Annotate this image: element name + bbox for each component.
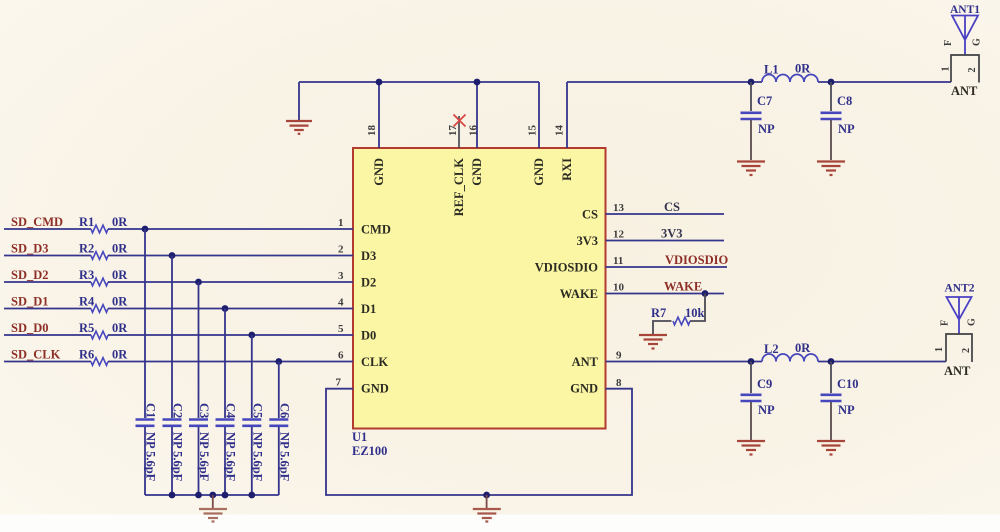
svg-text:7: 7 [336, 377, 342, 389]
svg-text:0R: 0R [112, 321, 128, 335]
wire SD_D2 to R3 [4, 281, 91, 283]
svg-text:D2: D2 [361, 276, 376, 290]
svg-text:ANT2: ANT2 [944, 283, 974, 295]
wire pin9 ANT to L2 [606, 361, 763, 363]
wire RXI bus to L1 [567, 81, 762, 83]
svg-text:11: 11 [613, 255, 623, 267]
svg-text:L2: L2 [764, 342, 779, 356]
node junction C4 tap [222, 305, 229, 312]
wire SD_D1 to R4 [4, 308, 91, 310]
svg-text:F: F [940, 320, 951, 326]
ANT2 connector box [946, 334, 972, 362]
ground below C8 [817, 162, 845, 176]
svg-text:0R: 0R [112, 268, 128, 282]
node junction C2 bottom [169, 492, 176, 499]
wire ground stem top-left [298, 82, 300, 120]
wire R4 to pin4 [108, 308, 353, 310]
wire SD_CLK to R6 [4, 361, 91, 363]
resistor R2 body [91, 252, 108, 260]
wire pin8 GND loop (right) [487, 389, 632, 495]
svg-text:15: 15 [527, 125, 539, 137]
node junction C4 bottom [222, 492, 229, 499]
svg-text:GND: GND [361, 382, 389, 396]
svg-text:D1: D1 [361, 302, 376, 316]
svg-text:GND: GND [532, 158, 546, 186]
svg-text:U1: U1 [352, 430, 367, 444]
svg-text:14: 14 [554, 125, 566, 137]
svg-text:SD_CMD: SD_CMD [11, 215, 63, 229]
wire R6 to pin6 [108, 361, 353, 363]
resistor R6 body [91, 358, 108, 366]
svg-text:GND: GND [570, 382, 598, 396]
svg-text:G: G [967, 318, 978, 326]
wire R5 to pin5 [108, 334, 353, 336]
resistor R7 body [673, 317, 690, 325]
svg-text:R1: R1 [79, 215, 94, 229]
wire CS [606, 213, 725, 215]
wire R1 to pin1 [108, 228, 353, 230]
svg-text:CS: CS [582, 208, 598, 222]
svg-text:3V3: 3V3 [661, 227, 683, 241]
svg-text:2: 2 [967, 68, 978, 73]
svg-text:NP 5.6pF: NP 5.6pF [250, 432, 264, 482]
ground center bottom [473, 509, 501, 522]
svg-text:0R: 0R [112, 215, 128, 229]
svg-text:C9: C9 [757, 377, 772, 391]
capacitor C9 [741, 362, 776, 441]
svg-text:3V3: 3V3 [576, 234, 598, 248]
svg-text:C7: C7 [757, 94, 772, 108]
svg-text:1: 1 [941, 67, 952, 72]
svg-text:NP 5.6pF: NP 5.6pF [144, 432, 158, 482]
antenna ANT2 [934, 283, 978, 379]
svg-text:1: 1 [934, 347, 945, 352]
node junction GND loop center [483, 492, 490, 499]
svg-text:SD_D1: SD_D1 [11, 295, 49, 309]
capacitor C6 [269, 362, 291, 496]
node junction C3 bottom [195, 492, 202, 499]
svg-text:C4: C4 [224, 403, 238, 419]
svg-text:SD_D2: SD_D2 [11, 268, 49, 282]
wire ground stem [212, 495, 214, 508]
svg-text:0R: 0R [112, 242, 128, 256]
svg-text:10: 10 [613, 282, 625, 294]
svg-text:3: 3 [338, 270, 344, 282]
svg-text:8: 8 [616, 377, 622, 389]
svg-text:2: 2 [961, 348, 972, 353]
svg-text:CS: CS [664, 200, 680, 214]
pin 17 stub [458, 116, 460, 148]
capacitor C3 [189, 282, 211, 495]
wire L1 to ANT1 [818, 81, 951, 83]
svg-text:4: 4 [338, 297, 344, 309]
svg-text:0R: 0R [112, 348, 128, 362]
wire WAKE [606, 293, 725, 295]
node junction C8 tap [828, 79, 835, 86]
svg-text:R4: R4 [79, 295, 95, 309]
svg-text:NP 5.6pF: NP 5.6pF [277, 432, 291, 482]
capacitor C7 [741, 82, 776, 160]
svg-text:R2: R2 [79, 242, 94, 256]
resistor R4 body [91, 305, 108, 313]
svg-text:WAKE: WAKE [664, 280, 702, 294]
svg-text:18: 18 [366, 125, 378, 137]
svg-text:F: F [943, 40, 954, 46]
no-connect X on pin 17 [454, 115, 466, 127]
svg-text:R7: R7 [651, 306, 666, 320]
resistor R3 body [91, 278, 108, 286]
svg-text:D0: D0 [361, 329, 376, 343]
wire R7 to ground [653, 321, 672, 334]
svg-text:VDIOSDIO: VDIOSDIO [535, 261, 598, 275]
wire pin18 to bus [378, 82, 380, 148]
svg-text:R3: R3 [79, 268, 94, 282]
node junction ground tap [209, 492, 216, 499]
svg-text:13: 13 [613, 202, 625, 214]
svg-text:0R: 0R [795, 62, 811, 76]
svg-text:GND: GND [470, 158, 484, 186]
ANT1 connector box [951, 55, 979, 83]
svg-text:5: 5 [338, 323, 344, 335]
svg-text:1: 1 [338, 217, 344, 229]
node junction C1 tap [142, 226, 149, 233]
ground top-left [286, 121, 312, 134]
inductor L2 [762, 354, 818, 362]
svg-text:R6: R6 [79, 348, 94, 362]
capacitor C2 [163, 256, 185, 496]
capacitor C10 [821, 362, 859, 441]
wire pin16 to bus [476, 82, 478, 148]
svg-text:NP 5.6pF: NP 5.6pF [171, 432, 185, 482]
svg-text:C2: C2 [171, 403, 185, 418]
inductor L1 [762, 75, 818, 82]
svg-text:NP: NP [758, 403, 775, 417]
svg-text:2: 2 [338, 244, 344, 256]
node junction C2 tap [169, 252, 176, 259]
capacitor C4 [216, 309, 238, 496]
svg-text:RXI: RXI [560, 158, 574, 181]
node junction WAKE/R7 [702, 290, 709, 297]
node junction C6 tap [275, 358, 282, 365]
ground below C7 [737, 162, 765, 176]
svg-text:GND: GND [372, 158, 386, 186]
wire VDIOSDIO [606, 266, 728, 268]
svg-text:CMD: CMD [361, 223, 391, 237]
node junction C5 bottom [248, 492, 255, 499]
resistor R1 body [91, 225, 108, 233]
svg-text:REF_CLK: REF_CLK [452, 158, 466, 217]
svg-text:NP 5.6pF: NP 5.6pF [224, 432, 238, 482]
op-amp U1 body (IC EZ100) [353, 148, 606, 429]
svg-text:NP: NP [838, 403, 855, 417]
svg-text:C5: C5 [250, 403, 264, 418]
wire pin7 GND loop (left) [326, 389, 487, 495]
svg-text:6: 6 [338, 350, 344, 362]
node junction pin18/bus [376, 79, 383, 86]
wire R2 to pin2 [108, 255, 353, 257]
wire 3V3 [606, 240, 725, 242]
svg-text:C10: C10 [837, 377, 859, 391]
ground below R7 [639, 335, 667, 349]
capacitor C1 [136, 229, 158, 495]
svg-text:R5: R5 [79, 321, 94, 335]
svg-text:VDIOSDIO: VDIOSDIO [665, 253, 728, 267]
wire pin14 RXI up [566, 82, 568, 148]
node junction C10 tap [828, 358, 835, 365]
wire pin15 to bus [538, 82, 540, 148]
wire R3 to pin3 [108, 281, 353, 283]
svg-text:NP: NP [758, 122, 775, 136]
svg-text:C8: C8 [837, 94, 852, 108]
svg-text:NP 5.6pF: NP 5.6pF [197, 432, 211, 482]
svg-text:C1: C1 [144, 403, 158, 418]
svg-text:9: 9 [616, 350, 622, 362]
svg-text:10k: 10k [685, 306, 705, 320]
svg-text:0R: 0R [112, 295, 128, 309]
node junction C7 tap [748, 79, 755, 86]
wire center ground stem [486, 495, 488, 508]
wire SD_CMD to R1 [4, 228, 91, 230]
svg-text:ANT1: ANT1 [950, 4, 980, 16]
svg-text:SD_D0: SD_D0 [11, 321, 49, 335]
svg-text:SD_CLK: SD_CLK [11, 348, 61, 362]
svg-text:C3: C3 [197, 403, 211, 418]
svg-text:0R: 0R [795, 341, 811, 355]
svg-text:CLK: CLK [361, 355, 388, 369]
node junction C5 tap [248, 332, 255, 339]
svg-text:L1: L1 [764, 63, 779, 77]
svg-text:12: 12 [613, 229, 625, 241]
bottom white strip [0, 515, 1000, 532]
svg-text:G: G [972, 38, 983, 46]
wire SD_D0 to R5 [4, 334, 91, 336]
svg-text:WAKE: WAKE [560, 287, 598, 301]
wire WAKE junction down to R7 [690, 294, 705, 322]
svg-text:NP: NP [838, 122, 855, 136]
svg-text:D3: D3 [361, 249, 376, 263]
svg-text:C6: C6 [277, 403, 291, 418]
node junction C3 tap [195, 279, 202, 286]
node junction pin16/bus [474, 79, 481, 86]
ground below C9 [737, 441, 765, 455]
svg-text:ANT: ANT [951, 84, 978, 98]
svg-text:ANT: ANT [572, 355, 599, 369]
ground below caps bank [199, 509, 227, 522]
wire SD_D3 to R2 [4, 255, 91, 257]
svg-text:EZ100: EZ100 [352, 444, 387, 458]
capacitor C8 [821, 82, 856, 160]
svg-text:ANT: ANT [944, 364, 971, 378]
svg-text:SD_D3: SD_D3 [11, 242, 49, 256]
resistor R5 body [91, 331, 108, 339]
ground below C10 [817, 441, 845, 455]
antenna ANT1 [941, 4, 983, 98]
svg-text:17: 17 [447, 125, 459, 137]
wire L2 to ANT2 [818, 361, 946, 363]
wire top GND bus [299, 81, 539, 83]
capacitor C5 [242, 335, 264, 495]
wire caps bottom bus [145, 494, 279, 496]
node junction C9 tap [748, 358, 755, 365]
